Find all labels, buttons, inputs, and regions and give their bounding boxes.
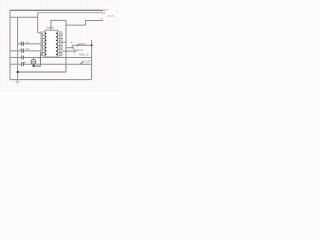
svg-text:Chip1: Chip1 (46, 26, 55, 30)
svg-text:+5V8: +5V8 (107, 14, 114, 18)
svg-text:1uF: 1uF (21, 60, 26, 64)
svg-text:GND_A: GND_A (79, 53, 89, 57)
svg-text:SCL1: SCL1 (76, 48, 83, 52)
svg-text:1uF 16: 1uF 16 (20, 47, 30, 51)
svg-text:SDA1: SDA1 (79, 42, 86, 46)
svg-text:1uF 16: 1uF 16 (20, 40, 30, 44)
svg-text:VOUT: VOUT (82, 60, 91, 64)
